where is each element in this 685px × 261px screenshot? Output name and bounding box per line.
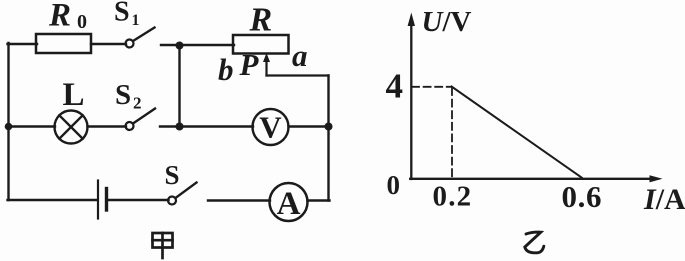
svg-text:1: 1 xyxy=(132,12,140,29)
voltmeter V xyxy=(253,109,289,145)
switch S xyxy=(168,183,197,205)
svg-text:0.6: 0.6 xyxy=(562,179,603,214)
wire R0 to S1 xyxy=(91,43,126,45)
svg-text:4: 4 xyxy=(386,67,404,106)
rheostat R body xyxy=(233,35,289,54)
svg-text:b: b xyxy=(218,52,234,87)
dashed line I=0.2 xyxy=(451,88,453,178)
svg-text:R: R xyxy=(249,2,273,39)
node junction right rail xyxy=(325,123,333,131)
wire S1 to rheostat xyxy=(161,44,234,46)
svg-text:S: S xyxy=(165,160,180,190)
wire junction down xyxy=(178,46,180,128)
wire slider to right rail xyxy=(267,74,329,76)
svg-text:2: 2 xyxy=(133,94,142,113)
axis I (x-axis) xyxy=(410,175,662,182)
svg-text:V: V xyxy=(259,110,282,145)
battery xyxy=(98,181,107,219)
wire row1 left segment xyxy=(8,43,38,45)
label yi (乙) xyxy=(525,232,544,253)
svg-text:U/V: U/V xyxy=(422,6,472,38)
node junction row2 xyxy=(176,123,184,131)
rheostat slider P arrow xyxy=(263,53,270,76)
wire right rail xyxy=(327,76,329,201)
wire S to ammeter xyxy=(208,199,270,201)
wire S2 to voltmeter xyxy=(160,125,253,127)
svg-text:I/A: I/A xyxy=(643,183,685,216)
wire left rail xyxy=(7,43,9,200)
wire battery to S xyxy=(109,199,169,201)
label jia (甲) xyxy=(153,233,173,258)
wire row3 rail to battery xyxy=(8,199,98,201)
svg-text:S: S xyxy=(114,0,130,28)
line U-I characteristic xyxy=(452,87,582,178)
svg-text:A: A xyxy=(277,186,301,222)
axis U (y-axis) xyxy=(408,13,415,180)
svg-text:L: L xyxy=(63,77,85,113)
resistor R0 xyxy=(36,34,91,53)
svg-text:P: P xyxy=(239,47,260,82)
switch S1 xyxy=(126,28,155,48)
wire V to right rail xyxy=(289,125,329,127)
node left rail row2 xyxy=(5,123,13,131)
svg-text:0.2: 0.2 xyxy=(433,181,473,213)
svg-text:0: 0 xyxy=(387,170,401,200)
node junction top xyxy=(176,42,184,50)
dashed line U=4 xyxy=(412,86,452,88)
svg-text:a: a xyxy=(292,38,308,73)
lamp L xyxy=(55,111,88,144)
svg-text:0: 0 xyxy=(77,11,87,33)
ammeter A xyxy=(270,183,308,222)
svg-text:S: S xyxy=(115,79,131,111)
wire rail to lamp xyxy=(9,125,56,127)
wire lamp to S2 xyxy=(88,125,127,127)
switch S2 xyxy=(126,109,156,131)
svg-text:R: R xyxy=(48,0,71,34)
wire A to right rail xyxy=(308,199,330,201)
